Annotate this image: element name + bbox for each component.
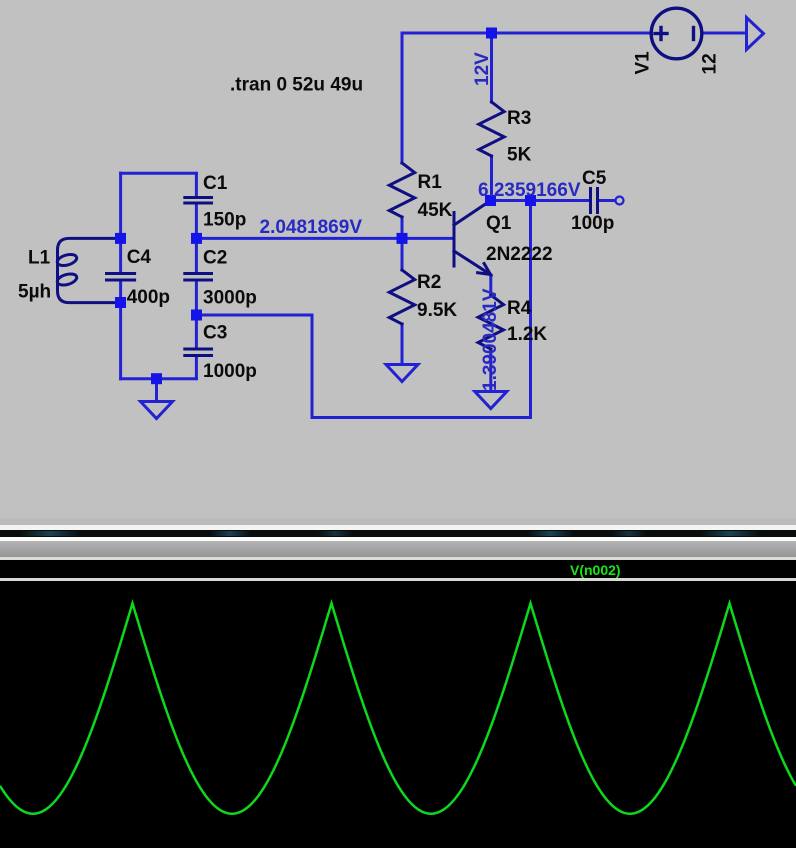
node junction C1C2 (191, 233, 202, 244)
wire ground stub LC (155, 379, 158, 402)
node junction L1 bottom (115, 297, 126, 308)
waveform plot (0, 581, 796, 841)
wire C1 top (195, 173, 198, 196)
svg-text:45K: 45K (418, 200, 453, 221)
node junction top rail (486, 28, 497, 39)
svg-text:R2: R2 (417, 272, 441, 293)
svg-text:100p: 100p (571, 213, 614, 234)
inductor L1 (56, 238, 121, 302)
svg-text:6.2359166V: 6.2359166V (478, 180, 581, 201)
svg-text:.tran 0 52u 49u: .tran 0 52u 49u (230, 75, 363, 96)
ground V1 rotated (747, 18, 764, 50)
svg-text:R3: R3 (507, 108, 531, 129)
wire R4 bottom to ground (489, 349, 492, 392)
smudges (20, 531, 80, 536)
svg-text:12: 12 (700, 53, 721, 74)
svg-text:V1: V1 (633, 51, 654, 75)
wire collector node to C5 (491, 199, 590, 202)
wire top rail (402, 32, 651, 35)
splitter band grey (0, 518, 796, 525)
wire R2 top (401, 238, 404, 270)
svg-text:R1: R1 (418, 172, 443, 193)
splitter band black (0, 530, 796, 537)
node junction LC ground (151, 373, 162, 384)
resistor R3 (479, 102, 504, 156)
wire R1 bottom to node (401, 217, 404, 240)
wire R3 bottom to collector node (490, 156, 493, 201)
resistor R1 (389, 163, 414, 217)
capacitor C5 (591, 189, 598, 213)
resistor R4 (478, 295, 503, 349)
wire R2 bottom to ground (401, 324, 404, 365)
svg-text:C2: C2 (203, 248, 227, 269)
svg-text:150p: 150p (203, 209, 246, 230)
svg-text:9.5K: 9.5K (417, 300, 457, 321)
node junction base divider (397, 233, 408, 244)
svg-text:2N2222: 2N2222 (486, 244, 553, 265)
port circle output (616, 197, 624, 205)
ground LC (141, 402, 173, 419)
wire C5 right to port (599, 199, 614, 202)
waveform trace V(n002) (0, 603, 796, 813)
svg-text:1.2K: 1.2K (507, 324, 547, 345)
capacitor C1 (185, 198, 212, 204)
wire LC top rail (121, 172, 197, 175)
ground R4 (475, 392, 507, 409)
ground R2 (386, 365, 418, 382)
svg-text:C5: C5 (582, 168, 607, 189)
transistor Q1 (454, 201, 491, 275)
capacitor C2 (185, 274, 212, 281)
resistor R2 (389, 270, 414, 324)
wire 12V drop to R3 (490, 33, 493, 102)
title bar grey (0, 537, 796, 541)
schematic pane (0, 0, 796, 519)
wire V1 to ground (702, 32, 746, 35)
wire C4 branch top (119, 173, 122, 272)
voltage source V1 (651, 8, 702, 59)
svg-text:1000p: 1000p (203, 361, 257, 382)
wire C3 span (195, 315, 198, 347)
svg-text:400p: 400p (127, 287, 170, 308)
wire feedback bottom (312, 416, 531, 419)
wire feedback vertical right (529, 201, 532, 418)
wire feedback vertical mid (311, 315, 314, 418)
node junction L1 top (115, 233, 126, 244)
wire C2/C3 node to feedback (197, 314, 313, 317)
wire LC bottom rail (121, 377, 197, 380)
wire C4 branch bottom (119, 282, 122, 379)
svg-text:12V: 12V (472, 52, 493, 86)
svg-text:C1: C1 (203, 173, 228, 194)
node junction feedback top (525, 195, 536, 206)
svg-text:5µh: 5µh (18, 281, 51, 302)
wire R1 top vertical (401, 33, 404, 163)
wire emitter down to R4 (489, 275, 492, 295)
svg-text:C3: C3 (203, 323, 227, 344)
svg-text:1.3900481V: 1.3900481V (480, 288, 501, 391)
wire base rail (197, 237, 453, 240)
svg-text:Q1: Q1 (486, 213, 512, 234)
capacitor C3 (185, 349, 212, 356)
svg-text:L1: L1 (28, 248, 51, 269)
label strip (0, 557, 796, 560)
trace label V(n002) (570, 564, 690, 577)
svg-text:C4: C4 (127, 247, 152, 268)
wire C2 span (195, 238, 198, 272)
svg-text:R4: R4 (507, 298, 532, 319)
node junction C2C3 (191, 310, 202, 321)
splitter band white (0, 525, 796, 530)
svg-text:5K: 5K (507, 145, 532, 166)
wire C1 bottom to node (195, 205, 198, 239)
node junction collector (485, 195, 496, 206)
capacitor C4 (107, 274, 135, 281)
svg-text:3000p: 3000p (203, 288, 257, 309)
svg-text:2.0481869V: 2.0481869V (260, 217, 363, 238)
